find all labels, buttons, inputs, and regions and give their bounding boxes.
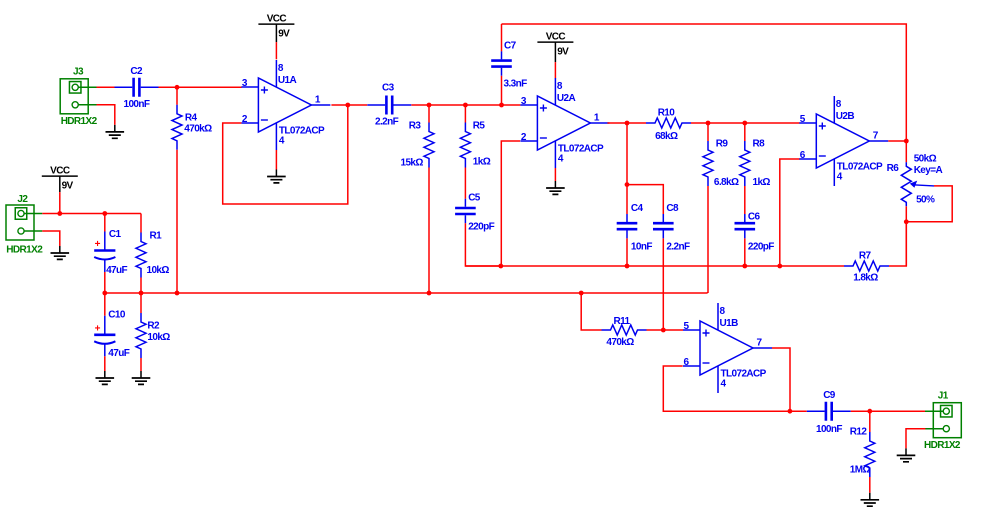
label R4 bbox=[185, 113, 198, 124]
capacitor C3 bbox=[367, 96, 411, 115]
label 470k (R11) bbox=[606, 337, 634, 348]
wire VCC to U2A pin8 bbox=[554, 62, 556, 78]
wire U1A pin4 to ground bbox=[275, 150, 277, 170]
ground (R2) bbox=[132, 371, 151, 384]
wire R12 to ground bbox=[869, 477, 871, 493]
svg-text:R6: R6 bbox=[887, 163, 900, 174]
junction node B (R3) bbox=[427, 103, 432, 108]
junction node C (R9) bbox=[706, 121, 711, 126]
wire C4 to mid bus bbox=[626, 238, 628, 266]
capacitor C1 (polarized) bbox=[94, 232, 115, 273]
svg-text:VCC: VCC bbox=[546, 32, 566, 43]
wire C2 to node A bbox=[159, 86, 178, 88]
svg-text:R5: R5 bbox=[473, 121, 486, 132]
wire bias bus to R11 bbox=[581, 293, 601, 330]
label R11 bbox=[614, 316, 631, 327]
capacitor C2 bbox=[115, 78, 159, 97]
op-amp U1A (TL072ACP) bbox=[241, 60, 330, 150]
label Key=A (R6) bbox=[914, 165, 943, 176]
resistor R11 bbox=[602, 325, 647, 335]
svg-text:1MΩ: 1MΩ bbox=[850, 465, 871, 476]
wire branch to C8 bbox=[627, 185, 663, 214]
svg-text:J3: J3 bbox=[73, 67, 84, 78]
svg-text:C10: C10 bbox=[108, 310, 126, 321]
svg-text:10nF: 10nF bbox=[631, 242, 652, 253]
label 2.2nF (C3) bbox=[375, 116, 399, 127]
label C10 bbox=[108, 310, 126, 321]
svg-text:C9: C9 bbox=[823, 390, 836, 401]
power VCC (J2) bbox=[42, 166, 78, 193]
label R7 bbox=[859, 251, 872, 262]
wire bias bus bbox=[105, 292, 708, 294]
svg-text:TL072ACP: TL072ACP bbox=[837, 162, 883, 173]
label 3.3nF (C7) bbox=[504, 79, 528, 90]
label R9 bbox=[716, 139, 729, 150]
label R1 bbox=[150, 231, 163, 242]
ground (C10) bbox=[96, 371, 115, 384]
label 50k (R6) bbox=[914, 154, 937, 165]
svg-text:HDR1X2: HDR1X2 bbox=[924, 440, 961, 451]
label 100nF (C2) bbox=[124, 99, 150, 110]
label 10k (R2) bbox=[147, 332, 170, 343]
label J2 bbox=[17, 194, 28, 205]
label HDR1X2 (J3) bbox=[61, 116, 98, 127]
wire U1B output bbox=[772, 348, 790, 411]
svg-text:R11: R11 bbox=[614, 316, 631, 327]
wire R4 to bias bus bbox=[176, 150, 178, 293]
ground (R12) bbox=[861, 493, 880, 506]
wire C10 top lead bbox=[104, 293, 106, 316]
label C2 bbox=[130, 66, 143, 77]
svg-text:TL072ACP: TL072ACP bbox=[558, 144, 604, 155]
label C4 bbox=[631, 203, 644, 214]
wire node A to U1A pin3 bbox=[177, 86, 242, 88]
resistor R8 bbox=[740, 141, 750, 186]
svg-text:TL072ACP: TL072ACP bbox=[279, 126, 325, 137]
junction bias bus (C1/C10) bbox=[102, 291, 107, 296]
power VCC (U2A) bbox=[537, 32, 573, 63]
capacitor C9 bbox=[807, 402, 851, 421]
resistor R1 bbox=[136, 233, 146, 278]
svg-text:C3: C3 bbox=[382, 83, 395, 94]
svg-text:9V: 9V bbox=[62, 181, 74, 192]
ground (U2A pin4) bbox=[546, 181, 565, 194]
svg-text:R10: R10 bbox=[658, 107, 676, 118]
label 470k (R4) bbox=[184, 123, 212, 134]
svg-text:R1: R1 bbox=[150, 231, 163, 242]
wire U1B output to C9 bbox=[790, 410, 807, 412]
junction mid bus (C4) bbox=[625, 264, 630, 269]
label 15k (R3) bbox=[401, 158, 424, 169]
wire U2B pin6 to mid bus bbox=[780, 159, 800, 266]
svg-text:100nF: 100nF bbox=[816, 424, 842, 435]
wire J2 pin1 row bbox=[42, 213, 141, 215]
ground (J1 pin2) bbox=[897, 448, 916, 461]
svg-text:C2: C2 bbox=[130, 66, 143, 77]
svg-text:50kΩ: 50kΩ bbox=[914, 154, 937, 165]
svg-text:R4: R4 bbox=[185, 113, 198, 124]
svg-text:C1: C1 bbox=[109, 229, 122, 240]
svg-text:47uF: 47uF bbox=[106, 265, 127, 276]
capacitor C6 bbox=[735, 214, 756, 238]
ground (U1A pin4) bbox=[267, 170, 286, 183]
svg-text:+: + bbox=[95, 239, 101, 250]
connector J1 (HDR1X2) bbox=[925, 403, 961, 438]
wire R6 bottom lead bbox=[905, 206, 907, 222]
svg-text:HDR1X2: HDR1X2 bbox=[61, 116, 98, 127]
svg-text:J1: J1 bbox=[938, 391, 949, 402]
label R5 bbox=[473, 121, 486, 132]
svg-text:3.3nF: 3.3nF bbox=[504, 79, 528, 90]
wire U2A pin4 to ground bbox=[554, 168, 556, 181]
wire R1 to bias bus bbox=[140, 278, 142, 294]
junction bias bus (R4) bbox=[175, 291, 180, 296]
capacitor C10 (polarized) bbox=[94, 316, 115, 357]
resistor R4 bbox=[172, 105, 182, 150]
label C9 bbox=[823, 390, 836, 401]
wire R2 top lead bbox=[140, 293, 142, 313]
wire R11 to U1B pin5 bbox=[647, 329, 684, 331]
svg-text:C4: C4 bbox=[631, 203, 644, 214]
svg-text:9V: 9V bbox=[557, 47, 569, 58]
capacitor C7 bbox=[491, 51, 512, 75]
wire R8 to C6 bbox=[744, 186, 746, 214]
label HDR1X2 (J1) bbox=[924, 440, 961, 451]
wire C1 top lead bbox=[104, 214, 106, 232]
wire U1B pin6 feedback bbox=[663, 366, 790, 411]
label HDR1X2 (J2) bbox=[6, 245, 43, 256]
label J3 bbox=[73, 67, 84, 78]
svg-text:R8: R8 bbox=[753, 139, 766, 150]
wire R1 top lead bbox=[140, 214, 142, 233]
junction bias bus (R11) bbox=[579, 291, 584, 296]
resistor R10 bbox=[646, 118, 691, 128]
junction mid bus (U2B-) bbox=[777, 264, 782, 269]
svg-text:C6: C6 bbox=[748, 212, 761, 223]
label R12 bbox=[850, 427, 868, 438]
potentiometer R6 bbox=[901, 162, 934, 206]
junction bias bus (R3) bbox=[427, 291, 432, 296]
label C7 bbox=[504, 41, 517, 52]
op-amp U1B (TL072ACP) bbox=[683, 303, 772, 393]
junction node B (R5) bbox=[463, 103, 468, 108]
wire top feedback bus bbox=[502, 24, 907, 141]
wire node A to R4 bbox=[176, 87, 178, 105]
svg-text:C8: C8 bbox=[666, 203, 679, 214]
wire C3 to U2A pin3 bbox=[411, 104, 520, 106]
capacitor C4 bbox=[617, 214, 638, 238]
wire C9 to J1 bbox=[851, 410, 926, 412]
svg-text:U1A: U1A bbox=[278, 75, 297, 86]
label 10k (R1) bbox=[147, 265, 170, 276]
svg-text:6.8kΩ: 6.8kΩ bbox=[714, 177, 739, 188]
ground (J2 pin2) bbox=[51, 246, 70, 259]
resistor R12 bbox=[865, 432, 875, 477]
junction U1A output bbox=[345, 103, 350, 108]
svg-text:1kΩ: 1kΩ bbox=[473, 157, 491, 168]
svg-text:C5: C5 bbox=[468, 193, 481, 204]
resistor R3 bbox=[424, 123, 434, 168]
junction J2/VCC bbox=[57, 211, 62, 216]
wire U1A feedback loop bbox=[223, 105, 348, 204]
wire C1 to bias bus bbox=[104, 272, 106, 293]
svg-text:HDR1X2: HDR1X2 bbox=[6, 245, 43, 256]
svg-text:1.8kΩ: 1.8kΩ bbox=[853, 273, 878, 284]
capacitor C8 bbox=[653, 214, 674, 238]
svg-text:C7: C7 bbox=[504, 41, 517, 52]
resistor R9 bbox=[703, 141, 713, 186]
svg-text:2.2nF: 2.2nF bbox=[666, 242, 690, 253]
junction R6 bottom/wiper bbox=[904, 219, 909, 224]
junction node A (C2/R4/U1A+) bbox=[175, 85, 180, 90]
label 220pF (C6) bbox=[748, 242, 774, 253]
wire C7 to node B bbox=[501, 76, 503, 105]
svg-text:220pF: 220pF bbox=[748, 242, 774, 253]
wire C8 to U1B pin5 node bbox=[662, 238, 664, 330]
resistor R2 bbox=[136, 313, 146, 358]
svg-text:470kΩ: 470kΩ bbox=[606, 337, 634, 348]
wire U2A output down to C4 bbox=[626, 123, 628, 214]
wire C5 to mid bus bbox=[465, 223, 500, 266]
label 6.8k (R9) bbox=[714, 177, 739, 188]
wire VCC to J2 node bbox=[59, 192, 61, 213]
label 47uF (C10) bbox=[108, 348, 129, 359]
label 100nF (C9) bbox=[816, 424, 842, 435]
label R6 bbox=[887, 163, 900, 174]
wire node C to R9 bbox=[707, 123, 709, 141]
wire C10 to ground bbox=[104, 356, 106, 371]
wire VCC to U1A pin8 bbox=[275, 42, 277, 59]
label C8 bbox=[666, 203, 679, 214]
junction U1B output/C9 bbox=[788, 409, 793, 414]
wire U2A pin2 to mid bus bbox=[501, 141, 520, 266]
label 1k (R8) bbox=[753, 177, 771, 188]
svg-text:68kΩ: 68kΩ bbox=[655, 131, 678, 142]
wire R3 to bias bus bbox=[428, 168, 430, 294]
svg-text:15kΩ: 15kΩ bbox=[401, 158, 424, 169]
wire C6 to mid bus bbox=[744, 238, 746, 266]
wire R9 to bias bus bbox=[707, 186, 709, 293]
junction node C (R8) bbox=[742, 121, 747, 126]
svg-text:1kΩ: 1kΩ bbox=[753, 177, 771, 188]
label 1.8k (R7) bbox=[853, 273, 878, 284]
svg-text:10kΩ: 10kΩ bbox=[147, 265, 170, 276]
svg-text:220pF: 220pF bbox=[468, 222, 494, 233]
wire U1A output node bbox=[331, 104, 367, 106]
svg-text:VCC: VCC bbox=[267, 14, 287, 25]
junction C1 top bbox=[102, 211, 107, 216]
wire node B to R3 bbox=[428, 105, 430, 123]
junction mid bus (C6) bbox=[742, 264, 747, 269]
label C6 bbox=[748, 212, 761, 223]
svg-text:100nF: 100nF bbox=[124, 99, 150, 110]
wire mid feedback bus bbox=[465, 265, 844, 267]
junction U1B pin5 node (C8) bbox=[661, 328, 666, 333]
svg-text:2.2nF: 2.2nF bbox=[375, 116, 399, 127]
junction bias bus (R1/R2) bbox=[139, 291, 144, 296]
connector J3 (HDR1X2) bbox=[60, 79, 96, 114]
wire R12 top lead bbox=[869, 411, 871, 432]
power VCC (U1A) bbox=[258, 14, 294, 42]
label 1M (R12) bbox=[850, 465, 871, 476]
label 220pF (C5) bbox=[468, 222, 494, 233]
junction U2B output bbox=[904, 139, 909, 144]
junction U2A output (C4 branch) bbox=[625, 121, 630, 126]
wire bias bus R9 riser bbox=[707, 292, 709, 293]
label 1k (R5) bbox=[473, 157, 491, 168]
label R2 bbox=[147, 321, 160, 332]
wire top bus to C7 bbox=[501, 24, 503, 51]
svg-text:10kΩ: 10kΩ bbox=[147, 332, 170, 343]
label J1 bbox=[938, 391, 949, 402]
label C5 bbox=[468, 193, 481, 204]
svg-text:47uF: 47uF bbox=[108, 348, 129, 359]
wire R5 to C5 bbox=[464, 168, 466, 199]
svg-text:50%: 50% bbox=[916, 195, 935, 206]
resistor R5 bbox=[460, 123, 470, 168]
capacitor C5 bbox=[455, 199, 476, 223]
wire J3 pin1 to C2 bbox=[97, 86, 115, 88]
wire right rail to R6 bbox=[905, 141, 907, 162]
svg-text:R7: R7 bbox=[859, 251, 872, 262]
wire R7 to R6 bottom bbox=[889, 222, 906, 266]
svg-text:R3: R3 bbox=[409, 121, 422, 132]
wire J1 pin2 to ground bbox=[906, 429, 925, 449]
label C1 bbox=[109, 229, 122, 240]
svg-text:R9: R9 bbox=[716, 139, 729, 150]
resistor R7 bbox=[844, 261, 889, 271]
svg-text:470kΩ: 470kΩ bbox=[184, 123, 212, 134]
wire R2 to ground bbox=[140, 358, 142, 371]
wire J3 pin2 to ground bbox=[97, 105, 115, 125]
label R8 bbox=[753, 139, 766, 150]
label C3 bbox=[382, 83, 395, 94]
svg-text:9V: 9V bbox=[278, 29, 290, 40]
wire U2B output to right rail bbox=[888, 140, 906, 142]
svg-text:U1B: U1B bbox=[720, 318, 739, 329]
svg-text:U2B: U2B bbox=[836, 111, 855, 122]
label R10 bbox=[658, 107, 676, 118]
svg-text:R2: R2 bbox=[147, 321, 160, 332]
label 50% (R6) bbox=[916, 195, 935, 206]
wire node C to R8 bbox=[744, 123, 746, 141]
wire R6 wiper loop bbox=[906, 186, 952, 222]
svg-text:TL072ACP: TL072ACP bbox=[721, 369, 767, 380]
svg-text:U2A: U2A bbox=[557, 93, 576, 104]
ground (J3 pin2) bbox=[106, 125, 125, 138]
junction mid bus (C5/U2A-) bbox=[498, 264, 503, 269]
label 10nF (C4) bbox=[631, 242, 652, 253]
svg-text:J2: J2 bbox=[17, 194, 28, 205]
wire node B to R5 bbox=[464, 105, 466, 123]
connector J2 (HDR1X2) bbox=[6, 205, 42, 240]
label 47uF (C1) bbox=[106, 265, 127, 276]
label 2.2nF (C8) bbox=[666, 242, 690, 253]
label R3 bbox=[409, 121, 422, 132]
junction R12 tap bbox=[867, 409, 872, 414]
svg-text:+: + bbox=[95, 323, 101, 334]
op-amp U2B (TL072ACP) bbox=[799, 96, 888, 186]
wire R6 to R7 corner bbox=[905, 222, 907, 266]
wire J2 pin2 to ground bbox=[42, 231, 60, 246]
junction node B (C7) bbox=[499, 103, 504, 108]
svg-text:Key=A: Key=A bbox=[914, 165, 943, 176]
op-amp U2A (TL072ACP) bbox=[520, 78, 609, 168]
svg-text:VCC: VCC bbox=[50, 166, 70, 177]
label 68k (R10) bbox=[655, 131, 678, 142]
junction C4/C8 branch bbox=[625, 182, 630, 187]
wire U2A output to R10 bbox=[607, 122, 646, 124]
svg-text:R12: R12 bbox=[850, 427, 868, 438]
wire R10 to U2B pin5 bbox=[691, 122, 800, 124]
